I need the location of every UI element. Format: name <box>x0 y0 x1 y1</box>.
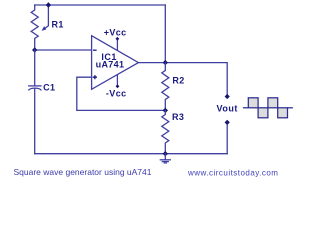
node D (R2/R3 junction) <box>163 108 168 113</box>
R1 wiper arrowhead <box>42 26 47 31</box>
wire op-amp output <box>138 63 227 95</box>
square wave icon <box>243 98 293 118</box>
wire -Vcc lead <box>116 75 118 87</box>
wire node B down to C1 <box>34 50 36 86</box>
wire R1 wiper <box>43 5 48 30</box>
svg-text:+Vcc: +Vcc <box>104 28 127 38</box>
resistor R1 (variable) <box>31 5 38 50</box>
svg-text:R3: R3 <box>172 112 184 122</box>
resistor R3 <box>162 110 169 153</box>
svg-text:Square wave generator using uA: Square wave generator using uA741 <box>14 167 152 177</box>
resistor R2 <box>162 63 169 111</box>
svg-text:C1: C1 <box>43 83 55 93</box>
terminal Vout lower <box>225 120 230 125</box>
svg-text:R1: R1 <box>52 19 64 29</box>
ground <box>164 154 166 160</box>
op-amp U1 triangle <box>92 36 139 90</box>
wire +Vcc lead <box>116 39 118 50</box>
wire bottom rail <box>35 153 228 155</box>
op-amp minus sign <box>93 49 97 51</box>
wire non-inverting input <box>77 77 166 110</box>
node A (R1 wiper to top rail) <box>46 2 51 7</box>
wire C1 to bottom rail <box>34 89 36 154</box>
svg-text:-Vcc: -Vcc <box>106 89 127 99</box>
node E (ground node) <box>163 151 168 156</box>
wire top rail <box>35 4 166 6</box>
capacitor C1 <box>29 85 41 87</box>
terminal Vout upper <box>225 94 230 99</box>
op-amp plus sign <box>93 75 97 79</box>
node C (output node) <box>163 60 168 65</box>
svg-text:www.circuitstoday.com: www.circuitstoday.com <box>187 168 278 177</box>
wire lower Vout terminal stem <box>226 125 228 154</box>
svg-text:uA741: uA741 <box>96 59 125 69</box>
svg-text:R2: R2 <box>172 76 184 86</box>
node B (R1/C1 junction) <box>32 47 37 52</box>
svg-text:Vout: Vout <box>217 103 238 113</box>
wire feedback vertical <box>164 5 166 63</box>
wire node to inverting input <box>35 49 92 51</box>
